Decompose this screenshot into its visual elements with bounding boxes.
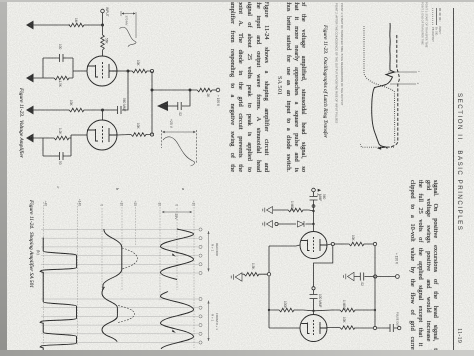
grid leak ground: [263, 207, 273, 214]
figure footnote lines (bottom): [335, 3, 345, 123]
dashed trace arrowhead: [377, 146, 382, 149]
figure footnote small lines (top): [421, 2, 429, 48]
cathode bus: [269, 246, 300, 328]
SA 501 heading: [276, 0, 283, 171]
output arrow down: [157, 101, 168, 111]
V2 divider upper resistor: [314, 308, 376, 312]
wire plate to tube: [327, 244, 331, 245]
junction V1 plate: [127, 70, 130, 73]
caption shaping amplifier: [28, 200, 34, 288]
junction output tap: [189, 89, 192, 92]
row a scale labels: [158, 201, 196, 207]
wire: [335, 243, 345, 245]
wave c panel 1: [40, 238, 76, 291]
row labels: [56, 187, 186, 191]
diode circle: [275, 222, 278, 225]
scan edge left thin: [0, 0, 474, 2]
wire output tap: [182, 90, 190, 106]
tube V1 right-col: [300, 232, 327, 259]
V1 cathode RC network: [33, 54, 73, 80]
test circle: [312, 205, 315, 208]
input sine label: [125, 16, 129, 26]
tube V2 right-col: [300, 315, 327, 342]
diode chain: [278, 223, 313, 225]
legend dashed sample: [439, 8, 441, 22]
waveform figure: [34, 178, 226, 356]
wave b clipped peak dashed panel 1: [122, 248, 138, 269]
wire plate lead V1: [117, 70, 130, 72]
junction V2 grid: [101, 109, 104, 112]
wire grid resistor down: [84, 24, 103, 26]
junction input node: [101, 24, 104, 27]
panel headers: [211, 243, 220, 330]
B+ rail: [374, 246, 376, 326]
plate junction circle: [331, 242, 334, 245]
caption voltage amplifier: [18, 88, 24, 158]
pointer labels: [416, 71, 421, 85]
row b reference lines: [102, 207, 136, 290]
wave b panel 2: [102, 287, 117, 342]
coupling circle: [312, 287, 315, 290]
wave c panel 2: [40, 290, 76, 353]
legend dotted sample: [432, 8, 434, 25]
bypass cap chain: [354, 273, 374, 281]
circle bus right: [150, 133, 153, 136]
ground arrow input R: [26, 21, 34, 30]
junction V4 grid node: [312, 310, 314, 312]
wave a panel 2: [161, 292, 194, 349]
+190 terminal: [396, 275, 400, 279]
ground arrow V2 cathode: [26, 134, 34, 143]
wire input: [102, 13, 104, 35]
wave a arrowheads: [172, 253, 176, 333]
right column text: [432, 180, 440, 356]
resistor series grid: [101, 35, 105, 56]
output waveform sketch: [162, 130, 197, 166]
labels: [251, 194, 400, 328]
capacitor interstage: [118, 106, 122, 114]
row b scale labels: [100, 201, 137, 207]
resistor V2 plate: [131, 133, 150, 137]
25V dimension row a: [162, 211, 192, 213]
bypass ground: [344, 272, 354, 280]
shaping amplifier schematic: [224, 178, 404, 356]
solid input trace: [372, 23, 395, 149]
pointer line 2: [390, 83, 416, 85]
wire: [377, 276, 396, 278]
wire: [103, 109, 118, 111]
rail junction circle: [374, 275, 377, 278]
wire: [152, 89, 195, 91]
V2 plate chain: [327, 326, 373, 330]
coupling cap: [310, 290, 318, 314]
dotted output trace: [364, 26, 395, 143]
component labels: [58, 7, 220, 165]
header: section title: [456, 93, 463, 273]
dotted output falling edge: [361, 144, 395, 147]
diode ground: [263, 221, 273, 228]
cathode ground: [231, 273, 242, 281]
V2 cathode lead: [71, 134, 87, 136]
wire: [212, 89, 216, 91]
junction divider rail: [374, 309, 376, 311]
resistor 1M: [69, 23, 84, 27]
gridline circles panel 1: [199, 228, 202, 275]
cathode resistor: [243, 272, 268, 276]
input A terminal: [312, 188, 316, 192]
resistor B+ dropping: [195, 88, 212, 92]
diode symbol: [298, 221, 305, 227]
resistor V1 plate: [130, 69, 150, 73]
junction V3 grid node: [312, 210, 314, 212]
left column text block: [300, 1, 308, 172]
wire: [33, 24, 70, 26]
input terminal: [101, 9, 105, 13]
tube V2: [87, 120, 117, 150]
rail end circle left: [373, 242, 376, 245]
scan edge shading bottom: [0, 0, 7, 356]
legend solid sample: [435, 8, 437, 25]
voltage amplifier schematic: [20, 0, 232, 176]
wave a panel 1: [161, 229, 194, 280]
wire plate lead V2: [117, 134, 131, 137]
time gridlines panel 1: [41, 230, 198, 274]
bus: [151, 71, 153, 135]
V1 plate resistor: [344, 242, 373, 246]
input sine sketch: [120, 11, 137, 47]
ground arrow V1 cathode: [26, 74, 34, 83]
V2 grid wire: [102, 110, 104, 121]
cathode bus circle: [267, 273, 270, 276]
input arrow: [318, 189, 322, 192]
wire interstage horiz: [122, 71, 128, 110]
row c reference lines: [44, 202, 78, 345]
header rule: [452, 8, 455, 356]
header: page number: [456, 328, 463, 343]
interval arrow panel 1: [207, 231, 209, 272]
wire: [168, 105, 178, 107]
wave b panel 1: [103, 229, 122, 290]
caption oscillograph: [322, 25, 328, 138]
row a reference lines: [160, 207, 194, 348]
row c scale labels: [44, 199, 82, 206]
wave b clipped peak dashed panel 2: [118, 306, 135, 323]
rail end circle right: [373, 326, 376, 329]
V2 grid lower resistor: [269, 308, 314, 312]
output terminal chain: [398, 326, 401, 329]
gridline circles panel 2: [199, 297, 202, 344]
junction diode tap: [312, 223, 314, 225]
ground arrow V2 grid R: [26, 106, 34, 115]
resistor V2 grid: [33, 108, 103, 112]
dashed B+ trace: [381, 35, 399, 148]
circle bus left: [150, 69, 153, 72]
tube V1: [87, 56, 117, 86]
+190V terminal: [216, 88, 220, 92]
V2 cathode RC network: [33, 135, 71, 160]
scan edge shading right: [0, 350, 474, 356]
capacitor output: [178, 102, 181, 110]
V1 cathode chain: [269, 245, 300, 246]
junction cathode bus: [268, 309, 270, 311]
V1 cathode lead: [73, 70, 87, 72]
time gridlines panel 2: [41, 299, 198, 343]
legend labels: [431, 26, 442, 42]
coupling run to V2 grid: [314, 246, 333, 287]
input wire: [310, 192, 318, 232]
interval arrow panel 2: [207, 301, 209, 342]
junction B+ bus: [151, 89, 154, 92]
oscillograph figure: [324, 0, 446, 176]
pointer line 1: [388, 71, 417, 73]
grid leak resistor chain: [273, 208, 314, 212]
